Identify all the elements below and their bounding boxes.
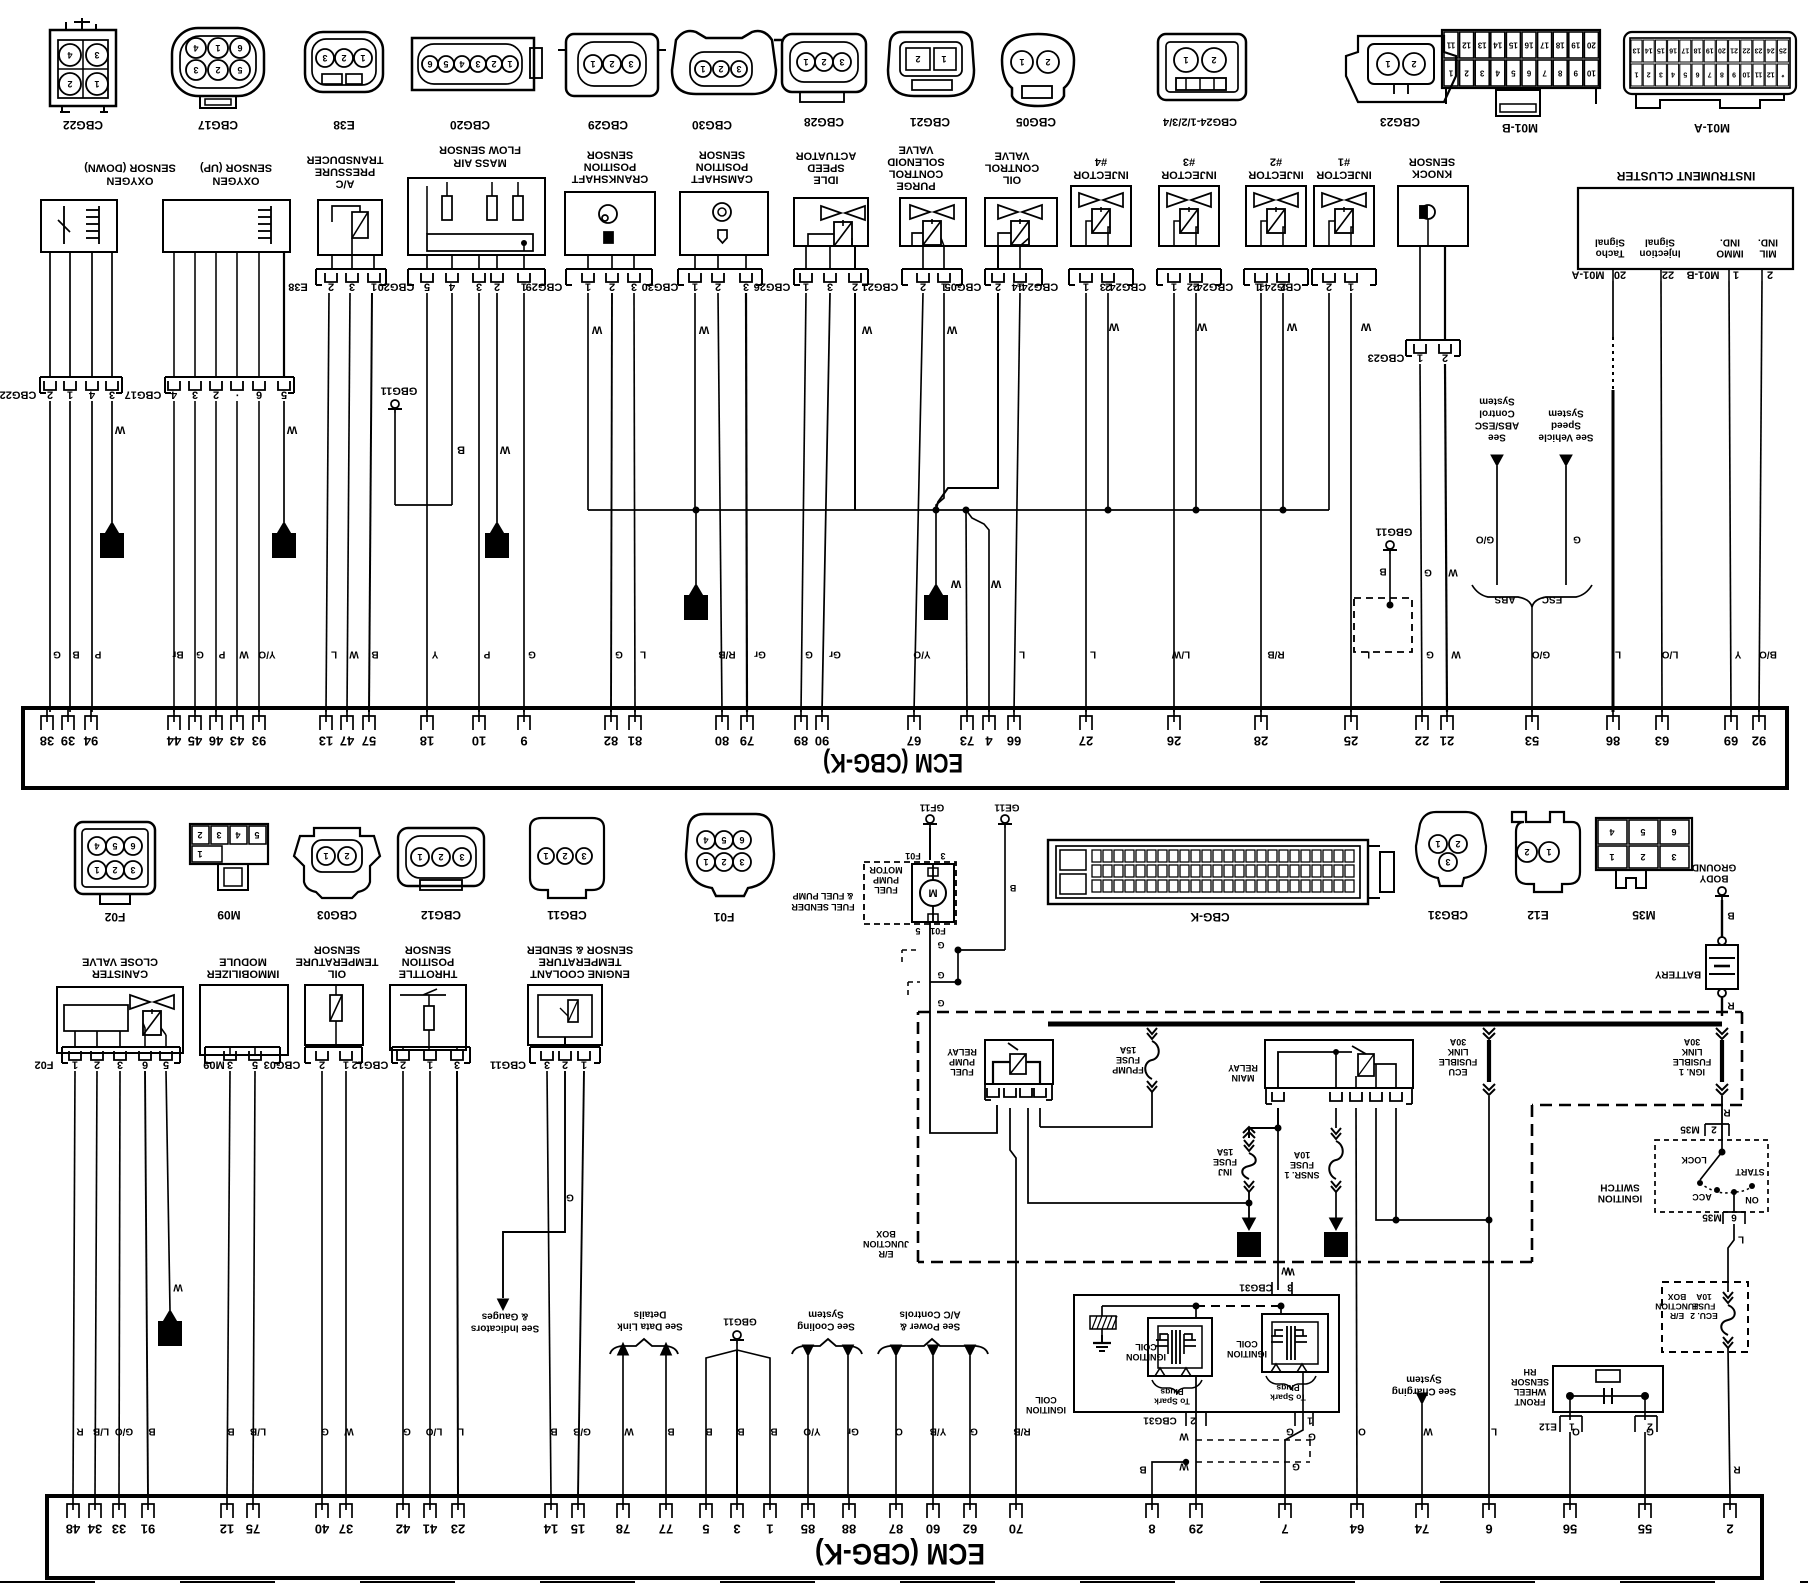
svg-text:2: 2 <box>1455 839 1460 849</box>
svg-text:10: 10 <box>1586 68 1595 77</box>
svg-text:RH: RH <box>1524 1367 1537 1377</box>
svg-text:1: 1 <box>1083 280 1089 292</box>
svg-text:L: L <box>1090 649 1096 660</box>
wires CBG22 to ECM <box>49 401 51 712</box>
svg-text:30A: 30A <box>1683 1037 1700 1047</box>
svg-text:M09: M09 <box>217 908 241 922</box>
svg-text:10A: 10A <box>1696 1292 1712 1302</box>
svg-text:1: 1 <box>493 536 501 553</box>
injector #4 wires <box>1085 293 1087 712</box>
svg-text:G: G <box>937 940 944 950</box>
svg-text:B: B <box>770 1426 777 1437</box>
svg-text:2: 2 <box>319 1058 325 1070</box>
svg-text:MODULE: MODULE <box>219 955 267 967</box>
canister wires to ECM <box>73 1071 75 1496</box>
svg-text:L/B: L/B <box>93 1426 109 1437</box>
ignition switch <box>1655 1140 1768 1212</box>
svg-text:B: B <box>667 1426 674 1437</box>
svg-text:ACTUATOR: ACTUATOR <box>796 149 857 161</box>
svg-text:B: B <box>737 1426 744 1437</box>
svg-text:1: 1 <box>1448 68 1453 77</box>
svg-text:M: M <box>928 886 937 898</box>
svg-text:O: O <box>1572 1426 1580 1437</box>
svg-text:2: 2 <box>67 79 72 89</box>
svg-text:5: 5 <box>254 830 259 840</box>
svg-text:11: 11 <box>1755 71 1763 78</box>
svg-text:SENSOR (DOWN): SENSOR (DOWN) <box>84 161 176 173</box>
injector #3 wires <box>1173 293 1175 712</box>
svg-text:55: 55 <box>1638 1522 1652 1537</box>
svg-text:MAIN: MAIN <box>1232 1073 1255 1083</box>
svg-text:2: 2 <box>821 57 826 67</box>
svg-text:B: B <box>1139 1464 1146 1475</box>
svg-text:7: 7 <box>1708 71 1712 78</box>
svg-text:W: W <box>990 577 1001 589</box>
svg-text:78: 78 <box>616 1522 630 1537</box>
svg-text:R: R <box>1723 1107 1731 1118</box>
svg-text:3: 3 <box>459 852 464 862</box>
svg-text:G: G <box>970 1426 978 1437</box>
svg-text:GROUND: GROUND <box>1692 862 1736 873</box>
wires E38 to ECM <box>326 293 329 712</box>
connector bar CBG21 <box>902 268 962 270</box>
svg-text:POSITION: POSITION <box>402 955 455 967</box>
connector bar E38 <box>316 268 386 270</box>
oil valve wires down <box>936 293 998 510</box>
svg-text:L: L <box>458 1426 464 1437</box>
svg-text:91: 91 <box>141 1522 155 1537</box>
svg-text:See Data Link: See Data Link <box>617 1321 683 1332</box>
svg-text:FUEL SENDER: FUEL SENDER <box>791 902 855 912</box>
svg-text:CAMSHAFT: CAMSHAFT <box>691 172 753 184</box>
svg-text:PUMP: PUMP <box>873 875 899 885</box>
svg-text:1: 1 <box>703 857 708 867</box>
svg-text:5: 5 <box>1683 71 1687 78</box>
svg-text:ON: ON <box>1745 1195 1759 1205</box>
svg-text:6: 6 <box>256 388 262 400</box>
svg-text:O: O <box>895 1426 903 1437</box>
svg-text:1: 1 <box>94 79 99 89</box>
svg-text:1: 1 <box>1183 55 1188 65</box>
svg-text:10: 10 <box>1742 71 1750 78</box>
svg-text:See: See <box>1488 432 1506 443</box>
svg-text:SENSOR: SENSOR <box>1510 1377 1549 1387</box>
immobilizer wires to ECM <box>227 1071 230 1496</box>
svg-text:2: 2 <box>1464 68 1469 77</box>
svg-text:WHEEL: WHEEL <box>1513 1387 1546 1397</box>
svg-text:L: L <box>331 649 337 660</box>
svg-text:B: B <box>1009 883 1016 893</box>
main relay wire to pin 6 <box>1376 1108 1489 1220</box>
svg-text:CBG24-1/2/3/4: CBG24-1/2/3/4 <box>1162 115 1237 127</box>
svg-text:4: 4 <box>448 280 455 292</box>
svg-text:1: 1 <box>1348 280 1354 292</box>
injector #2 wires <box>1260 293 1262 712</box>
svg-text:4: 4 <box>94 841 99 851</box>
svg-text:90: 90 <box>815 734 829 749</box>
connector CBG05 <box>1002 34 1074 106</box>
svg-text:O: O <box>1358 1426 1366 1437</box>
svg-text:CONTROL: CONTROL <box>985 161 1040 173</box>
svg-text:3: 3 <box>349 280 355 292</box>
svg-text:42: 42 <box>396 1522 410 1537</box>
svg-text:Y/O: Y/O <box>258 649 275 660</box>
svg-text:18: 18 <box>1694 47 1702 54</box>
svg-text:48: 48 <box>66 1522 80 1537</box>
connector bar CBG24-2 <box>1244 268 1308 270</box>
ignition coil 1 (left) <box>1148 1318 1212 1376</box>
svg-text:To Spark: To Spark <box>1154 1397 1190 1407</box>
connector bar CBG11 <box>530 1046 600 1048</box>
svg-text:15A: 15A <box>1216 1147 1233 1157</box>
fuel pump wire down <box>929 922 931 1012</box>
svg-text:Injection: Injection <box>1639 248 1680 259</box>
svg-text:1: 1 <box>543 851 548 861</box>
svg-text:5: 5 <box>163 1058 169 1070</box>
connector CBG21 <box>888 32 974 96</box>
svg-text:5: 5 <box>252 1058 258 1070</box>
ignition coil assembly <box>1074 1295 1339 1412</box>
ECM bar lower <box>47 1496 1762 1578</box>
svg-text:Details: Details <box>633 1309 666 1320</box>
svg-text:56: 56 <box>1563 1522 1577 1537</box>
svg-text:BODY: BODY <box>1699 873 1728 884</box>
connector CBG30 <box>672 31 776 94</box>
svg-text:M35: M35 <box>1632 908 1656 922</box>
svg-text:67: 67 <box>907 734 921 749</box>
svg-text:15: 15 <box>571 1522 585 1537</box>
svg-text:3: 3 <box>109 388 115 400</box>
svg-text:GBG11: GBG11 <box>723 1316 757 1327</box>
svg-text:34: 34 <box>87 1522 102 1537</box>
svg-text:11: 11 <box>1446 40 1455 49</box>
svg-text:W: W <box>239 649 249 660</box>
svg-text:13: 13 <box>319 734 333 749</box>
svg-text:FRONT: FRONT <box>1514 1397 1545 1407</box>
svg-text:G: G <box>528 649 536 660</box>
svg-text:5: 5 <box>281 388 287 400</box>
svg-text:2: 2 <box>213 388 219 400</box>
svg-text:2: 2 <box>562 851 567 861</box>
svg-text:GBG11: GBG11 <box>381 384 418 396</box>
svg-text:OIL: OIL <box>328 967 347 979</box>
svg-text:2: 2 <box>852 280 858 292</box>
svg-text:MOTOR: MOTOR <box>869 865 903 875</box>
svg-text:5: 5 <box>1640 827 1645 837</box>
svg-text:2: 2 <box>491 59 496 69</box>
coolant sender to indicators <box>503 1071 565 1298</box>
oil temp wires to ECM <box>321 1071 323 1496</box>
svg-text:CBG03: CBG03 <box>264 1058 301 1070</box>
svg-text:B: B <box>72 649 79 660</box>
svg-text:JUNCTION: JUNCTION <box>863 1239 909 1249</box>
svg-text:22: 22 <box>1662 268 1674 280</box>
relay to INJ fuse wire <box>1028 1108 1249 1203</box>
svg-text:FUSIBLE: FUSIBLE <box>1439 1057 1478 1067</box>
svg-text:PURGE: PURGE <box>896 179 935 191</box>
wires CBG17 to ECM <box>173 401 175 712</box>
svg-text:63: 63 <box>1655 734 1669 749</box>
svg-text:89: 89 <box>794 734 808 749</box>
note 2 arrow under purge <box>930 584 943 595</box>
svg-text:B: B <box>227 1426 234 1437</box>
svg-text:L: L <box>1491 1426 1497 1437</box>
svg-text:3: 3 <box>1659 71 1663 78</box>
svg-text:12: 12 <box>1767 71 1775 78</box>
svg-text:13: 13 <box>1477 40 1486 49</box>
svg-text:L: L <box>1738 1234 1744 1245</box>
svg-text:COIL: COIL <box>1035 1395 1057 1405</box>
svg-text:BOX: BOX <box>1667 1292 1686 1302</box>
connector M01-A <box>1624 32 1796 94</box>
svg-text:2: 2 <box>166 1324 174 1341</box>
svg-text:KNOCK: KNOCK <box>1412 167 1452 179</box>
ECM lower pins <box>67 1504 79 1518</box>
svg-text:G: G <box>1646 1426 1654 1437</box>
svg-text:3: 3 <box>94 50 99 60</box>
svg-text:B/O: B/O <box>1759 649 1777 660</box>
svg-text:CBG21: CBG21 <box>910 115 950 129</box>
svg-text:LINK: LINK <box>1681 1047 1702 1057</box>
svg-text:INJECTOR: INJECTOR <box>1248 168 1303 180</box>
svg-text:2: 2 <box>344 851 349 861</box>
svg-text:2: 2 <box>609 59 614 69</box>
svg-text:CBG12: CBG12 <box>421 908 461 922</box>
svg-text:E38: E38 <box>288 280 308 292</box>
svg-text:R/B: R/B <box>1267 649 1284 660</box>
svg-text:ECU: ECU <box>1448 1067 1467 1077</box>
svg-text:See Vehicle: See Vehicle <box>1538 432 1593 443</box>
svg-text:6: 6 <box>427 59 432 69</box>
connector CBG24-1/2/3/4 <box>1158 34 1246 100</box>
svg-text:W: W <box>591 323 602 335</box>
wires oil valve to CBG05 bar <box>997 246 999 269</box>
svg-text:3: 3 <box>117 1058 123 1070</box>
svg-text:22: 22 <box>1415 734 1429 749</box>
junction to pins 73 and 4 <box>963 507 970 514</box>
svg-text:INJECTOR: INJECTOR <box>1073 168 1128 180</box>
svg-text:BOX: BOX <box>876 1229 896 1239</box>
svg-text:M01-B: M01-B <box>1686 268 1719 280</box>
svg-text:2: 2 <box>562 1058 568 1070</box>
svg-text:70: 70 <box>1009 1522 1023 1537</box>
svg-text:ECM (CBG-K): ECM (CBG-K) <box>823 748 963 778</box>
svg-text:80: 80 <box>715 734 729 749</box>
W bus wire <box>588 509 1329 511</box>
svg-text:G: G <box>937 998 944 1008</box>
svg-text:See Power &: See Power & <box>900 1321 961 1332</box>
svg-text:VALVE: VALVE <box>994 149 1029 161</box>
svg-text:ABS/ESC: ABS/ESC <box>1475 420 1519 431</box>
svg-text:37: 37 <box>339 1522 353 1537</box>
svg-text:79: 79 <box>740 734 754 749</box>
svg-text:INSTRUMENT CLUSTER: INSTRUMENT CLUSTER <box>1616 169 1755 183</box>
svg-text:1: 1 <box>1417 351 1423 363</box>
connector bar CBG23 <box>1406 339 1460 341</box>
svg-text:ECM (CBG-K): ECM (CBG-K) <box>815 1537 985 1570</box>
svg-text:3: 3 <box>631 280 637 292</box>
svg-text:& FUEL PUMP: & FUEL PUMP <box>793 891 854 901</box>
svg-text:1: 1 <box>417 852 422 862</box>
svg-text:SNSR. 1: SNSR. 1 <box>1284 1170 1319 1180</box>
svg-text:2: 2 <box>609 280 615 292</box>
connector CBG03 <box>294 828 380 898</box>
svg-text:System: System <box>1548 408 1584 419</box>
svg-text:System: System <box>808 1309 844 1320</box>
svg-text:2: 2 <box>1524 847 1529 857</box>
svg-text:5: 5 <box>443 59 448 69</box>
svg-text:2: 2 <box>1045 57 1050 67</box>
svg-text:5: 5 <box>1511 68 1516 77</box>
svg-text:14: 14 <box>543 1522 558 1537</box>
svg-text:6: 6 <box>130 841 135 851</box>
wires CBG20 to ECM <box>451 293 453 505</box>
svg-text:73: 73 <box>960 734 974 749</box>
svg-text:88: 88 <box>842 1522 856 1537</box>
connector bar CBG03 <box>305 1046 362 1048</box>
svg-text:ENGINE COOLANT: ENGINE COOLANT <box>530 967 630 979</box>
svg-text:2: 2 <box>1711 1124 1717 1135</box>
svg-text:CBG29: CBG29 <box>526 280 563 292</box>
svg-text:57: 57 <box>362 734 376 749</box>
svg-text:Speed: Speed <box>1551 420 1581 431</box>
wires purge to CBG21 bar <box>922 246 924 269</box>
svg-text:R/B: R/B <box>718 649 735 660</box>
svg-text:SENSOR: SENSOR <box>699 148 746 160</box>
svg-text:THROTTLE: THROTTLE <box>399 967 458 979</box>
svg-text:G/O: G/O <box>1532 649 1551 660</box>
svg-text:G: G <box>805 649 813 660</box>
CBG31 bottom pins <box>1195 1376 1197 1496</box>
svg-text:1: 1 <box>108 536 116 553</box>
svg-text:To Spark: To Spark <box>1270 1393 1306 1403</box>
svg-text:6: 6 <box>1731 1212 1737 1223</box>
svg-text:FUSE: FUSE <box>1692 1302 1715 1312</box>
svg-text:30A: 30A <box>1449 1037 1466 1047</box>
svg-text:60: 60 <box>926 1522 940 1537</box>
svg-text:B: B <box>371 649 378 660</box>
svg-text:8: 8 <box>1720 71 1724 78</box>
svg-text:CBG29: CBG29 <box>588 118 628 132</box>
junction dashes near fuel pump <box>930 950 1005 982</box>
svg-text:W: W <box>1196 320 1207 332</box>
svg-text:3: 3 <box>1479 68 1484 77</box>
svg-text:1: 1 <box>1609 852 1614 862</box>
connector CBG17 <box>172 28 264 96</box>
svg-text:SENSOR: SENSOR <box>587 148 634 160</box>
svg-text:3: 3 <box>227 1058 233 1070</box>
svg-text:Y/O: Y/O <box>913 649 930 660</box>
svg-text:JUNCTION: JUNCTION <box>1655 1302 1698 1312</box>
svg-text:Gr: Gr <box>847 1426 859 1437</box>
svg-text:G: G <box>1424 567 1432 578</box>
svg-text:10: 10 <box>472 734 486 749</box>
dashed option lines at coils <box>1196 1439 1310 1441</box>
svg-text:1: 1 <box>700 64 705 74</box>
idle wires to ECM <box>801 293 806 712</box>
svg-text:2: 2 <box>1640 852 1645 862</box>
svg-text:1: 1 <box>343 1058 349 1070</box>
svg-text:CBG05: CBG05 <box>1016 115 1056 129</box>
svg-text:CBG20: CBG20 <box>450 118 490 132</box>
svg-text:5: 5 <box>237 65 242 75</box>
fuel pump wire inside junction box <box>930 1012 997 1133</box>
W bus junction at camshaft <box>693 507 700 514</box>
svg-text:2: 2 <box>1326 280 1332 292</box>
svg-text:4: 4 <box>67 50 72 60</box>
svg-text:1: 1 <box>1435 839 1440 849</box>
svg-text:2: 2 <box>197 830 202 840</box>
svg-text:82: 82 <box>604 734 618 749</box>
svg-text:F01: F01 <box>713 910 734 924</box>
svg-text:3: 3 <box>940 851 945 861</box>
svg-text:45: 45 <box>188 734 202 749</box>
svg-text:TEMPERATURE: TEMPERATURE <box>296 955 379 967</box>
connector bar F02 <box>62 1046 180 1048</box>
svg-text:W: W <box>1108 320 1119 332</box>
svg-text:5: 5 <box>424 280 430 292</box>
svg-text:5: 5 <box>915 926 920 936</box>
svg-text:SWITCH: SWITCH <box>1600 1182 1639 1193</box>
svg-text:P: P <box>483 649 490 660</box>
svg-text:IGN. 1: IGN. 1 <box>1679 1067 1705 1077</box>
svg-text:INJECTOR: INJECTOR <box>1161 168 1216 180</box>
svg-text:2: 2 <box>721 857 726 867</box>
ignition switch ON wire out <box>1733 1192 1735 1212</box>
svg-text:W: W <box>349 649 359 660</box>
svg-text:F02: F02 <box>35 1058 54 1070</box>
svg-text:9: 9 <box>1732 71 1736 78</box>
svg-text:VALVE: VALVE <box>898 143 933 155</box>
svg-text:3: 3 <box>739 857 744 867</box>
svg-text:GF11: GF11 <box>919 802 944 813</box>
svg-text:Gr: Gr <box>829 649 841 660</box>
svg-text:2: 2 <box>47 388 53 400</box>
svg-text:M35: M35 <box>1680 1124 1700 1135</box>
svg-text:E38: E38 <box>333 118 355 132</box>
connector F01 <box>686 814 774 896</box>
svg-text:4: 4 <box>459 59 464 69</box>
svg-text:CBG05: CBG05 <box>945 280 982 292</box>
ignition switch contacts <box>1719 1149 1726 1156</box>
svg-text:7: 7 <box>1281 1522 1288 1537</box>
svg-text:1: 1 <box>371 280 377 292</box>
svg-text:12: 12 <box>220 1522 234 1537</box>
connector CBG20 <box>412 38 534 90</box>
svg-text:92: 92 <box>1752 734 1766 749</box>
ECU.2 fuse 10A in E/R junction box <box>1662 1282 1748 1352</box>
svg-text:A/C Controls: A/C Controls <box>899 1309 961 1320</box>
svg-text:46: 46 <box>209 734 223 749</box>
connector M01-B <box>1442 30 1600 88</box>
svg-text:2: 2 <box>718 64 723 74</box>
svg-text:2: 2 <box>915 54 920 64</box>
svg-text:2: 2 <box>494 280 500 292</box>
svg-text:B: B <box>705 1426 712 1437</box>
svg-text:ECU. 2: ECU. 2 <box>1690 1311 1718 1321</box>
svg-text:4: 4 <box>703 835 708 845</box>
svg-text:43: 43 <box>230 734 244 749</box>
svg-text:RELAY: RELAY <box>947 1047 977 1057</box>
svg-text:1: 1 <box>692 598 700 615</box>
svg-text:17: 17 <box>1540 40 1549 49</box>
svg-text:2: 2 <box>215 65 220 75</box>
injector #1 wires <box>1328 293 1330 510</box>
coil ground <box>1101 1306 1103 1316</box>
svg-text:L/O: L/O <box>1661 649 1678 660</box>
svg-text:CANISTER: CANISTER <box>92 967 148 979</box>
svg-text:25: 25 <box>1779 47 1787 54</box>
